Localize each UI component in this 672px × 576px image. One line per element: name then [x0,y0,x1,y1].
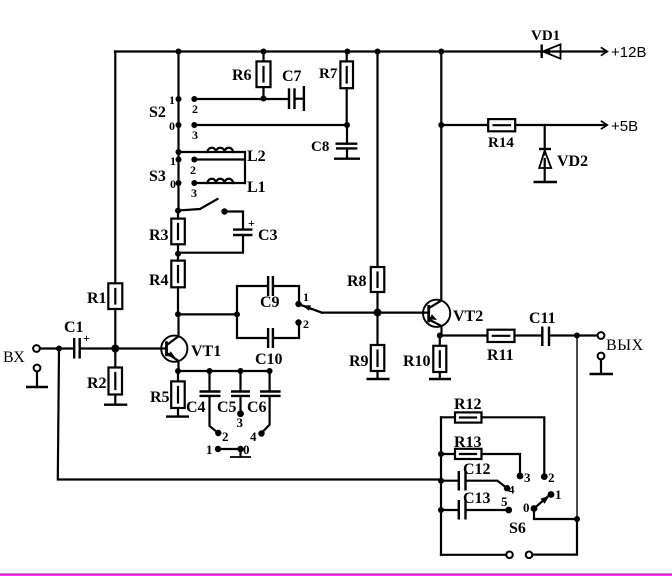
svg-text:L1: L1 [247,179,266,196]
wire feedback from input node down and right [58,349,441,480]
node R13 [438,451,444,457]
switch blade S6 [534,496,550,509]
node top rail / R8 [375,49,381,55]
node C4 tap [207,368,213,374]
label C7 [282,68,302,85]
pin 4 of S6 [509,483,515,497]
svg-text:3: 3 [191,186,197,200]
capacitor C8 [334,125,360,159]
wire jumper left to rail [441,554,506,556]
pin 1 of S6 [555,487,562,502]
label R13 [454,434,482,451]
wire emitter bus [178,370,270,372]
label R7 [319,66,338,82]
svg-text:R1: R1 [87,290,107,307]
svg-text:1: 1 [206,442,213,457]
arrow +12V [601,47,608,55]
capacitor C12 [441,471,506,491]
label C4 [186,399,206,416]
node +5V branch [438,122,444,128]
node VT1 collector [175,311,181,317]
svg-text:R10: R10 [403,353,431,370]
pin 0 of S3 [170,177,176,191]
pin 3 of S6 [524,470,531,485]
node R8/R9/base [374,309,382,317]
contact 4 of cap selector [258,430,264,436]
wire +5V branch to R14 [441,124,488,126]
wire main vertical x=178.5 top section [177,52,179,211]
inductor L1 [194,179,245,183]
pin 3 of cap selector [237,415,244,430]
svg-text:0: 0 [170,177,176,191]
inductor L2 [179,148,246,152]
switch blade C9 selector [300,305,322,313]
svg-text:C6: C6 [247,399,267,416]
contact 2 of S6 [541,473,548,480]
contact of R3 bypass switch [221,208,227,214]
terminal jumper right [526,552,533,559]
svg-text:0: 0 [243,442,250,457]
svg-text:1: 1 [303,290,309,304]
resistor R13 [441,449,520,473]
node top rail / R7 [344,49,350,55]
switch S2 pole 0 [176,122,182,128]
label VT2 [453,308,483,325]
label S3 [149,168,166,185]
label S6 [509,520,526,537]
switch blade cap selector [218,448,241,450]
label C8 [311,139,329,155]
switch S2 contact 3 [191,122,197,128]
pin 2 of S2 [192,102,198,116]
label +5V [611,118,638,135]
terminal output [598,332,605,339]
label C5 [217,399,237,416]
capacitor C4 [200,371,221,432]
svg-text:R2: R2 [87,375,107,392]
ground of R2 [104,404,127,406]
resistor R5 [171,371,185,416]
wire R11 to C11 [515,334,542,336]
arrow +5V [601,121,608,129]
wire S6 left rail [440,417,442,554]
svg-text:0: 0 [523,500,530,515]
node top rail / VT2 collector [438,49,444,55]
node top rail / main vertical [176,49,182,55]
switch contact 1 of C9 selector [295,301,301,307]
pin 0 of cap selector [243,442,250,457]
ground of VD2 [534,181,558,183]
resistor R6 [257,52,271,99]
svg-text:C5: C5 [217,399,237,416]
resistor R3 [171,211,185,245]
node feedback / pole [574,516,580,522]
capacitor C11 [542,327,549,347]
wire R8 from rail [376,52,378,268]
label R10 [403,353,431,370]
resistor R4 [171,244,185,314]
wire output feedback vertical [576,336,578,520]
svg-text:4: 4 [250,429,257,444]
node R6 bottom [261,96,267,102]
svg-text:R11: R11 [487,347,514,364]
switch S3 pole 1 [176,157,182,163]
node R7 bottom / C8 [344,122,350,128]
resistor R14 [488,119,515,131]
contact 4 of S6 [504,485,510,491]
svg-text:3: 3 [237,415,244,430]
label +12V [611,44,646,61]
transistor VT1 [161,314,187,371]
capacitor C9 [237,276,299,314]
resistor R7 [340,52,353,126]
svg-text:ВЫХ: ВЫХ [606,337,644,354]
pin 4 of cap selector [250,429,257,444]
node R3 top [175,208,181,214]
svg-text:+5В: +5В [611,118,638,135]
svg-text:ВХ: ВХ [3,349,25,366]
label L2 [247,148,266,165]
svg-text:5: 5 [501,494,508,509]
transistor VT2 [423,300,450,336]
svg-text:C9: C9 [260,294,280,311]
svg-text:S6: S6 [509,520,526,537]
wire feedback down to jumper [533,519,578,555]
pin 1 of S3 [170,154,176,168]
capacitor C7 [289,86,304,111]
svg-text:C1: C1 [64,319,84,336]
pin 2 of S3 [190,163,196,177]
label R1 [87,290,107,307]
ground of cap selector [230,449,251,457]
node output feedback tap [574,333,580,339]
svg-text:C10: C10 [255,351,283,368]
svg-text:4: 4 [509,483,515,497]
svg-text:R3: R3 [149,227,169,244]
switch S2 contact 2 [191,96,197,102]
node C9 loop left [234,311,240,317]
resistor R12 [441,412,544,473]
pole 0 of cap selector [237,446,243,452]
svg-text:R13: R13 [454,434,482,451]
svg-text:R14: R14 [488,135,514,151]
ground of R9 [367,378,390,380]
svg-text:VD2: VD2 [557,153,588,170]
node VT1 emitter [175,368,181,374]
pin 3 of S3 [191,186,197,200]
svg-text:VD1: VD1 [531,28,560,44]
svg-text:C3: C3 [258,227,278,244]
wire emitter to R11 [440,334,488,336]
pole 0 of S6 [531,505,538,512]
svg-text:2: 2 [190,163,196,177]
wire contact to C3 top [225,212,244,229]
svg-text:C13: C13 [463,490,491,507]
wire R14 to +5V arrow [515,124,606,126]
svg-text:3: 3 [192,128,198,142]
wire R1 bottom to base node [114,309,116,349]
node VT2 emitter [437,333,443,339]
svg-text:1: 1 [169,93,175,107]
label C3 [258,227,278,244]
capacitor C13 [441,500,506,520]
label VD2 [557,153,588,170]
capacitor C6 [260,371,281,432]
ground input terminal [26,365,48,387]
pin 2 of C9 selector [303,317,309,331]
node C5 tap [238,368,244,374]
contact 3 of S6 [517,473,524,480]
label R14 [488,135,514,151]
switch S3 contact 3 [191,180,197,186]
pin 2 of S6 [548,470,555,485]
svg-text:C11: C11 [529,310,556,327]
capacitor C5 [231,371,250,414]
wire blade to R8/R9 node to VT2 base [322,312,428,314]
svg-text:+: + [83,331,90,345]
label C10 [255,351,283,368]
svg-text:R9: R9 [349,353,369,370]
wire L right vertical [244,152,246,183]
pin 1 of cap selector [206,442,213,457]
contact 2 of cap selector [215,430,221,436]
node C6 tap [267,368,273,374]
node C12 [438,478,444,484]
label C1 [64,319,84,336]
svg-text:C4: C4 [186,399,206,416]
wire C11 to output [550,334,597,336]
svg-text:2: 2 [222,429,229,444]
capacitor C3 [233,216,255,235]
resistor R10 [433,336,446,379]
magenta divider line [0,573,672,575]
ground output terminal [590,353,614,374]
svg-text:R4: R4 [149,272,169,289]
terminal input BX [33,345,40,352]
diode VD2 zener [539,125,551,182]
ground of R5 [166,415,189,417]
capacitor C1 [74,331,90,359]
contact 1 of S6 [548,491,555,498]
svg-text:1: 1 [555,487,562,502]
svg-text:VT2: VT2 [453,308,483,325]
label C13 [463,490,491,507]
ground of R10 [429,378,451,380]
node top rail / R6 [261,49,267,55]
label R3 [149,227,169,244]
svg-text:+: + [248,216,255,230]
pin 1 of C9 selector [303,290,309,304]
label S2 [149,104,166,121]
switch blade across R3 [179,199,218,211]
svg-text:S3: S3 [149,168,166,185]
node C13 [438,507,444,513]
label R9 [349,353,369,370]
wire C3 bottom loop to R3 bottom [179,236,244,253]
node R3 bottom [175,251,181,257]
pin 5 of S6 [501,494,508,509]
label C11 [529,310,556,327]
resistor R1 [108,283,122,309]
svg-text:R5: R5 [150,389,170,406]
svg-text:C8: C8 [311,139,329,155]
node feedback tap [56,346,62,352]
wire S2 contact2 to R6 bottom and C7 [194,98,288,100]
contact 1 of cap selector [215,446,221,452]
label BbIX [606,337,644,354]
label R6 [232,67,252,84]
resistor R9 [371,313,385,379]
wire VT2 collector from rail [440,52,442,301]
wire left vertical from rail to R1 [114,52,116,284]
pin 1 of S2 [169,93,175,107]
label VD1 [531,28,560,44]
svg-text:C7: C7 [282,68,302,85]
capacitor C10 [237,314,299,348]
svg-text:VT1: VT1 [191,343,221,360]
svg-text:0: 0 [169,119,175,133]
diode VD1 [542,44,561,58]
svg-text:2: 2 [303,317,309,331]
switch S3 contact 2 [191,157,197,163]
svg-text:R6: R6 [232,67,252,84]
resistor R2 [109,349,123,405]
wire collector node to C9 loop [179,313,238,315]
svg-text:R8: R8 [347,273,367,290]
wire input to C1 [40,347,73,349]
svg-text:2: 2 [192,102,198,116]
switch S3 pole 0 [176,180,182,186]
svg-text:L2: L2 [247,148,266,165]
label R11 [487,347,514,364]
svg-text:3: 3 [524,470,531,485]
label R2 [87,375,107,392]
svg-text:S2: S2 [149,104,166,121]
contact 3 of cap selector [237,410,244,417]
contact 5 of S6 [505,507,512,514]
label BX [3,349,25,366]
wire S2 contact3 to R7 bottom [194,124,347,126]
label R8 [347,273,367,290]
switch S2 pole 1 [176,96,182,102]
label R5 [150,389,170,406]
svg-text:1: 1 [170,154,176,168]
pin 0 of S6 [523,500,530,515]
svg-text:2: 2 [548,470,555,485]
label R4 [149,272,169,289]
resistor R8 [371,267,385,313]
switch contact 2 of C9 selector [295,319,301,325]
pin 0 of S2 [169,119,175,133]
terminal jumper left [506,552,513,559]
pin 3 of S2 [192,128,198,142]
label VT1 [191,343,221,360]
pin 2 of cap selector [222,429,229,444]
wire S6 pole to feedback line [534,509,577,520]
svg-text:C12: C12 [463,461,491,478]
label C6 [247,399,267,416]
label R12 [454,396,482,413]
svg-text:+12В: +12В [611,44,646,61]
svg-text:R7: R7 [319,66,338,82]
label L1 [247,179,266,196]
wire S3 contact2 [194,158,245,160]
resistor R11 [488,330,515,342]
wire C1 to base node to VT1 base [81,347,166,349]
label C9 [260,294,280,311]
label C12 [463,461,491,478]
wire top supply rail [115,50,606,52]
node L2 branch [176,149,182,155]
node R1/R2/base [111,345,119,353]
svg-text:R12: R12 [454,396,482,413]
